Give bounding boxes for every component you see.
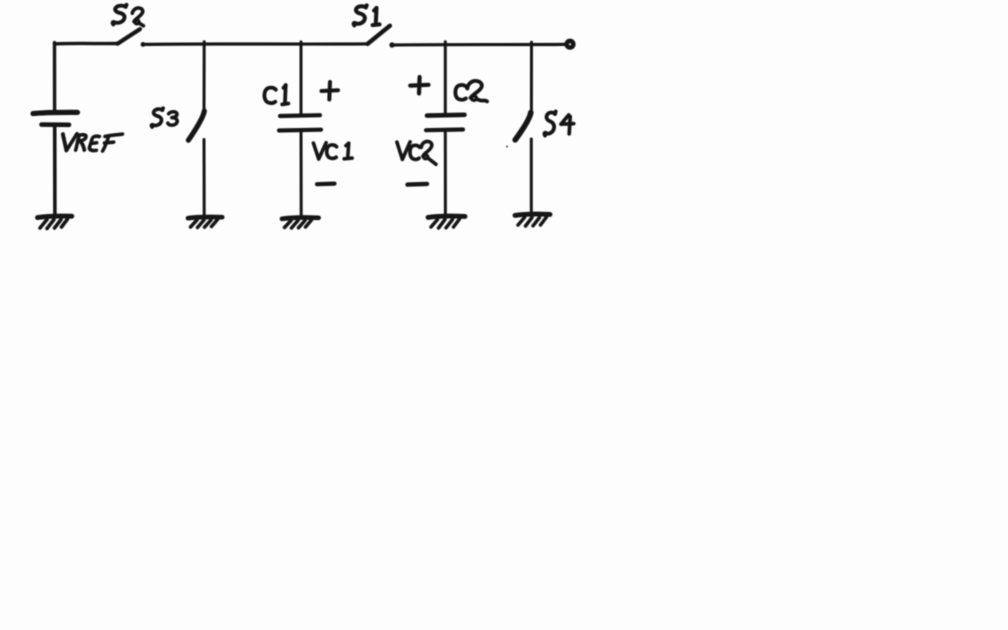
label C2 plus sign: [410, 83, 428, 88]
label S4: [544, 112, 573, 136]
ground G5 (S4): [515, 214, 550, 226]
wire top rail right segment: [392, 43, 565, 47]
wire battery top: [53, 43, 56, 111]
switch S1 blade: [368, 26, 390, 44]
label C1 plus sign: [322, 88, 339, 93]
label C2 minus sign: [408, 182, 428, 187]
switch S2 blade: [118, 29, 140, 44]
wire battery bottom: [53, 127, 57, 217]
wire S4 upper: [530, 42, 533, 112]
wire top rail left segment: [55, 42, 118, 46]
label VREF: [60, 134, 122, 151]
wire S3 upper: [203, 42, 206, 113]
capacitor C1 top plate: [280, 113, 320, 118]
switch S3 blade: [188, 111, 204, 140]
wire S4 lower: [530, 139, 533, 214]
ground G1 (VREF): [38, 216, 72, 228]
label S1: [354, 5, 380, 25]
ground G3 (C1): [282, 218, 319, 228]
switch S2 tip dot: [139, 27, 142, 30]
label C1 minus sign: [317, 182, 335, 187]
wire C2 upper: [444, 42, 447, 114]
wire C1 lower: [300, 131, 303, 217]
label S3: [151, 108, 177, 127]
capacitor C2 top plate: [427, 113, 465, 118]
battery VREF long plate: [33, 112, 78, 113]
ground G4 (C2): [428, 216, 465, 228]
capacitor C2 bottom plate: [426, 127, 463, 132]
battery VREF short plate: [42, 122, 70, 127]
wire C1 upper: [300, 42, 303, 114]
switch S4 blade: [515, 113, 531, 140]
switch S2 right contact dot: [141, 42, 146, 47]
wire top rail middle segment: [143, 42, 368, 46]
switch S1 tip dot: [388, 24, 392, 28]
wire S3 lower: [203, 140, 206, 217]
label C2: [455, 81, 487, 102]
label VC2: [397, 141, 436, 164]
wire C2 lower: [444, 131, 447, 216]
switch S1 right contact dot: [389, 42, 394, 47]
speck below S4 blade: [506, 146, 508, 148]
label S2: [113, 5, 144, 26]
label C1: [264, 85, 288, 104]
ground G2 (S3): [188, 217, 222, 227]
label VC1: [313, 143, 352, 159]
node output terminal: [567, 41, 574, 48]
capacitor C1 bottom plate: [279, 128, 321, 133]
